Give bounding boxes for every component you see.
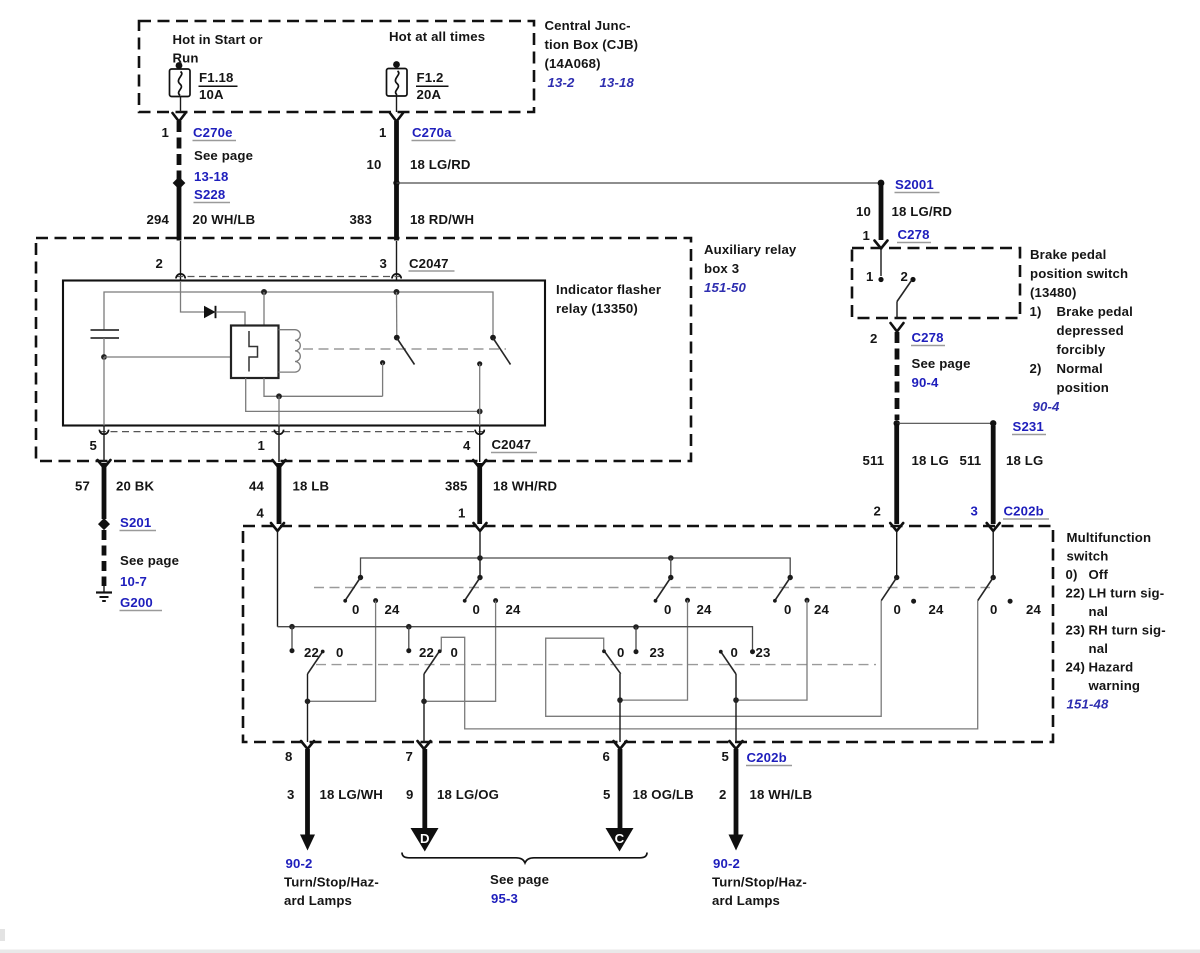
svg-text:18 LG: 18 LG — [912, 453, 949, 468]
svg-text:22): 22) — [1066, 586, 1086, 601]
svg-text:RH turn sig-: RH turn sig- — [1089, 623, 1166, 638]
svg-text:LH turn sig-: LH turn sig- — [1089, 586, 1165, 601]
node S2001 branch junction — [393, 180, 399, 186]
svg-text:ard Lamps: ard Lamps — [712, 893, 780, 908]
svg-text:3: 3 — [971, 504, 978, 519]
svg-text:C: C — [615, 831, 625, 846]
turn switch 4 contact 23 — [750, 649, 755, 654]
svg-text:forcibly: forcibly — [1057, 342, 1106, 357]
wire capacitor to ground node — [103, 338, 105, 357]
svg-text:24: 24 — [506, 602, 521, 617]
svg-text:9: 9 — [406, 787, 413, 802]
chevron pin5 out of aux box — [98, 460, 111, 468]
wire pin4 to aux border — [479, 426, 481, 462]
hazard switch 3 arm — [656, 578, 671, 601]
svg-text:Run: Run — [173, 51, 199, 66]
wire contact2 stationary to pin 4 — [479, 364, 481, 426]
svg-text:511: 511 — [960, 453, 982, 468]
flasher control block — [231, 326, 279, 379]
chevron pin 1 into MF switch — [474, 523, 487, 531]
svg-text:13-18: 13-18 — [600, 75, 635, 90]
wire rail to flasher block — [263, 292, 265, 326]
wire sw3 24 contact down-left to pin 6 node — [620, 600, 688, 700]
svg-text:18 OG/LB: 18 OG/LB — [633, 787, 694, 802]
svg-text:C278: C278 — [898, 227, 930, 242]
turn switch 2 contact 22 — [406, 648, 411, 653]
svg-text:warning: warning — [1088, 678, 1141, 693]
svg-text:18 LG: 18 LG — [1006, 453, 1043, 468]
svg-text:0: 0 — [731, 645, 738, 660]
pass-through arc pin 2 — [176, 274, 185, 279]
wire pin5 to aux border — [103, 426, 105, 462]
arrow to turn/stop lamps left — [300, 835, 315, 851]
svg-text:F1.2: F1.2 — [417, 70, 444, 85]
svg-text:3: 3 — [287, 787, 294, 802]
svg-text:0: 0 — [336, 645, 343, 660]
svg-text:position: position — [1057, 380, 1109, 395]
turn feed rail — [278, 627, 753, 652]
svg-text:ard Lamps: ard Lamps — [284, 893, 352, 908]
svg-text:S231: S231 — [1013, 419, 1044, 434]
svg-text:Normal: Normal — [1057, 361, 1103, 376]
hazard switch 2 contact 24 — [493, 598, 498, 603]
chevron out of CJB left — [173, 113, 186, 122]
svg-text:See page: See page — [490, 872, 549, 887]
svg-text:24: 24 — [929, 602, 944, 617]
chevron out of CJB right — [390, 113, 403, 122]
wire stub sw3L contact 23 — [635, 627, 637, 652]
chevron pin 5 out — [730, 741, 743, 749]
svg-text:22: 22 — [304, 645, 319, 660]
wire to S2001 — [397, 182, 882, 184]
svg-text:0: 0 — [990, 602, 997, 617]
svg-text:13-2: 13-2 — [548, 75, 576, 90]
svg-text:10: 10 — [856, 204, 871, 219]
flasher contact glyph — [249, 331, 258, 372]
relay contact 1 pivot — [394, 335, 400, 341]
wire 511 18 LG left — [894, 423, 899, 524]
svg-text:57: 57 — [75, 479, 90, 494]
svg-text:C202b: C202b — [747, 750, 787, 765]
relay contact 2 stationary — [477, 361, 482, 366]
chevron pin 4 into MF switch — [271, 523, 284, 531]
svg-text:2: 2 — [719, 787, 726, 802]
svg-text:1: 1 — [458, 506, 465, 521]
node pin 6 — [617, 697, 623, 703]
svg-text:C278: C278 — [912, 330, 944, 345]
chevron pin 8 out — [301, 741, 314, 749]
splice S2001 — [878, 180, 885, 187]
node pin 1 junction — [276, 393, 282, 399]
wire 10 18 LG/RD — [394, 121, 399, 241]
wire sw1 24 contact down-left to pin 8 node — [308, 601, 376, 702]
chevron pin4 out of aux box — [473, 460, 486, 468]
svg-text:tion Box (CJB): tion Box (CJB) — [545, 37, 639, 52]
svg-text:18 LG/WH: 18 LG/WH — [320, 787, 383, 802]
pass-through arc pin 1 — [274, 430, 283, 435]
svg-text:90-2: 90-2 — [286, 856, 313, 871]
svg-text:23): 23) — [1066, 623, 1086, 638]
svg-text:C2047: C2047 — [409, 256, 449, 271]
svg-text:1: 1 — [162, 125, 169, 140]
svg-text:Turn/Stop/Haz-: Turn/Stop/Haz- — [284, 875, 379, 890]
turn switch 1 contact 22 — [290, 648, 295, 653]
node rail pin1 — [477, 555, 483, 561]
turn switch 4 pivot to pin 5 — [735, 674, 737, 742]
svg-text:24): 24) — [1066, 660, 1086, 675]
turn switch 3 arm — [605, 652, 621, 674]
svg-text:Central Junc-: Central Junc- — [545, 18, 631, 33]
chevron into brake switch box — [875, 241, 888, 249]
svg-text:18 LG/RD: 18 LG/RD — [892, 204, 953, 219]
node cap/ground junction — [101, 354, 107, 360]
node rail sw2L — [406, 624, 412, 630]
internal supply rail — [104, 292, 493, 338]
svg-text:See page: See page — [120, 553, 179, 568]
svg-text:(14A068): (14A068) — [545, 56, 601, 71]
pass-through arc pin 5 — [99, 430, 108, 435]
ground G200 — [103, 586, 105, 592]
wire pin2 to diode — [181, 281, 205, 312]
svg-text:10A: 10A — [199, 87, 224, 102]
turn switch 2 pivot to pin 7 — [423, 674, 425, 742]
svg-text:18 LG/OG: 18 LG/OG — [437, 787, 499, 802]
relay contact 1 arm — [397, 338, 415, 365]
hazard switch 5 pivot — [894, 575, 899, 580]
svg-text:0: 0 — [784, 602, 791, 617]
wire pin 1 into box — [479, 531, 481, 578]
hazard switch 2 arm — [465, 578, 480, 601]
svg-text:24: 24 — [1026, 602, 1041, 617]
svg-text:Brake pedal: Brake pedal — [1057, 304, 1133, 319]
mechanical link dashed — [303, 348, 506, 350]
node S231 left — [894, 420, 900, 426]
wire arm to box bottom — [896, 302, 898, 319]
svg-text:switch: switch — [1067, 549, 1109, 564]
svg-text:3: 3 — [380, 256, 387, 271]
svg-text:Auxiliary relay: Auxiliary relay — [704, 242, 797, 257]
connector arrow D — [411, 828, 439, 852]
relay contact 1 stationary — [380, 360, 385, 365]
wire rail to sw3 pivot — [670, 558, 672, 578]
arrow to turn/stop lamps right — [729, 835, 744, 851]
svg-text:18 LG/RD: 18 LG/RD — [410, 157, 471, 172]
chevron pin 3 into MF switch — [987, 523, 1000, 531]
svg-text:18 LB: 18 LB — [293, 479, 330, 494]
wire stub sw2L contact 22 — [408, 627, 410, 651]
svg-text:20 BK: 20 BK — [116, 479, 154, 494]
wire pin 3 into box — [992, 531, 994, 578]
indicator flasher relay box — [63, 281, 545, 426]
svg-text:S201: S201 — [120, 515, 151, 530]
svg-text:2: 2 — [874, 504, 881, 519]
node pin 8 — [305, 699, 311, 705]
node rail sw1L — [289, 624, 295, 630]
chevron pin 7 out — [418, 741, 431, 749]
multifunction switch dashed border — [243, 526, 1053, 742]
wire pin 4 into box — [277, 531, 279, 627]
turn switch 4 arm — [721, 652, 736, 674]
svg-text:C2047: C2047 — [492, 437, 532, 452]
svg-text:Hazard: Hazard — [1089, 660, 1134, 675]
node rail sw3 stub — [668, 555, 674, 561]
svg-text:24: 24 — [814, 602, 829, 617]
capacitor C — [91, 329, 120, 331]
wire stub sw1L contact 22 — [291, 627, 293, 651]
wire S231 bridge — [897, 422, 994, 424]
wire sw4 24 contact down-left to pin 5 node — [736, 600, 807, 700]
svg-text:S228: S228 — [194, 187, 225, 202]
svg-text:385: 385 — [445, 479, 467, 494]
hazard switch 1 arm — [345, 578, 360, 601]
hazard switch 6 contact 24 — [1008, 599, 1013, 604]
wire contact1 feed — [396, 292, 398, 338]
wire node to relay block — [104, 356, 231, 358]
node pin 5 — [733, 697, 739, 703]
svg-text:nal: nal — [1089, 641, 1109, 656]
hazard switch 4 arm — [775, 578, 790, 601]
chevron pin 2 into MF switch — [890, 523, 903, 531]
svg-text:Hot in Start or: Hot in Start or — [173, 32, 263, 47]
svg-text:1): 1) — [1030, 304, 1042, 319]
hazard feed rail — [361, 558, 791, 578]
wire 57 20 BK — [102, 463, 107, 519]
svg-text:20A: 20A — [417, 87, 442, 102]
wire 511 18 LG right — [991, 426, 996, 524]
wire 294 dashed segment (in-line splice region) — [177, 121, 182, 182]
svg-text:Hot at all times: Hot at all times — [389, 29, 485, 44]
node rail sw3L — [633, 624, 639, 630]
svg-text:0): 0) — [1066, 567, 1078, 582]
connector dashed line bottom of relay — [99, 431, 485, 433]
wire diode to relay block — [216, 312, 246, 326]
svg-text:relay (13350): relay (13350) — [556, 301, 638, 316]
wire 294 20 WH/LB — [177, 186, 182, 241]
svg-text:18 RD/WH: 18 RD/WH — [410, 212, 474, 227]
wire 10 18 LG/RD right — [879, 183, 884, 240]
svg-text:13-18: 13-18 — [194, 169, 228, 184]
svg-text:0: 0 — [664, 602, 671, 617]
svg-text:0: 0 — [894, 602, 901, 617]
connector dashed line top of relay — [176, 276, 401, 278]
svg-text:151-50: 151-50 — [704, 280, 746, 295]
svg-text:Off: Off — [1089, 567, 1109, 582]
hazard switch 6 pivot — [991, 575, 996, 580]
svg-text:23: 23 — [756, 645, 771, 660]
turn switch 3 contact 23 — [634, 649, 639, 654]
svg-text:22: 22 — [419, 645, 434, 660]
wire 385 18 WH/RD — [477, 463, 482, 524]
svg-text:18 WH/LB: 18 WH/LB — [750, 787, 813, 802]
node pin 4 junction — [477, 409, 483, 415]
wire sw5 arm tip to RH off loop — [546, 601, 882, 716]
wire node down to pin 5 — [103, 357, 105, 426]
chevron pin 6 out — [614, 741, 627, 749]
svg-text:2: 2 — [156, 256, 163, 271]
svg-text:0: 0 — [473, 602, 480, 617]
svg-text:44: 44 — [249, 479, 264, 494]
svg-text:5: 5 — [90, 438, 97, 453]
svg-text:6: 6 — [603, 749, 610, 764]
svg-text:294: 294 — [147, 212, 170, 227]
svg-text:C202b: C202b — [1004, 504, 1044, 519]
svg-text:383: 383 — [350, 212, 372, 227]
relay coil — [279, 330, 301, 372]
svg-text:24: 24 — [385, 602, 400, 617]
wire 3 18 LG/WH — [305, 749, 310, 836]
splice S228 — [173, 177, 186, 190]
brake pedal position switch dashed border — [852, 248, 1020, 318]
svg-text:23: 23 — [650, 645, 665, 660]
node S231 right — [990, 420, 996, 426]
svg-text:0: 0 — [451, 645, 458, 660]
hazard switch 6 arm — [978, 578, 994, 601]
turn switch 1 arm — [308, 652, 323, 674]
wire 9 18 LG/OG — [422, 749, 427, 829]
node dot above fuse F1.18 — [176, 62, 183, 69]
svg-text:5: 5 — [722, 749, 729, 764]
wire pin 2 into box — [896, 531, 898, 578]
svg-text:See page: See page — [194, 148, 253, 163]
svg-text:depressed: depressed — [1057, 323, 1124, 338]
svg-text:151-48: 151-48 — [1067, 697, 1109, 712]
wire block bottom to pin4 net — [246, 378, 480, 411]
hazard switch 1 contact 24 — [373, 598, 378, 603]
svg-text:Multifunction: Multifunction — [1067, 530, 1152, 545]
wire pin 1 drop — [278, 396, 280, 425]
splice S201 — [98, 518, 110, 530]
svg-text:90-4: 90-4 — [1033, 399, 1061, 414]
hazard switch 4 contact 24 — [805, 598, 810, 603]
svg-text:Brake pedal: Brake pedal — [1030, 247, 1106, 262]
svg-text:4: 4 — [257, 506, 265, 521]
svg-text:2): 2) — [1030, 361, 1042, 376]
wire pin1 to aux border — [278, 426, 280, 462]
svg-text:box 3: box 3 — [704, 261, 739, 276]
svg-text:S2001: S2001 — [895, 177, 934, 192]
svg-text:24: 24 — [697, 602, 712, 617]
wire contact1 stationary down — [382, 363, 384, 397]
svg-text:1: 1 — [258, 438, 265, 453]
turn switch 1 pivot to pin 8 — [307, 674, 309, 742]
svg-text:position switch: position switch — [1030, 266, 1128, 281]
wire dashed to ground — [102, 530, 107, 586]
svg-text:90-2: 90-2 — [713, 856, 740, 871]
wire pin1 inside box — [880, 249, 882, 276]
svg-text:20 WH/LB: 20 WH/LB — [193, 212, 256, 227]
wire sw2 24 contact down-left to pin 7 node — [424, 601, 496, 702]
brake switch contact 2 — [910, 277, 915, 282]
edge artifact mark — [0, 929, 5, 941]
svg-text:See page: See page — [912, 356, 971, 371]
central junction box (CJB) dashed border — [139, 21, 534, 112]
svg-text:7: 7 — [406, 749, 413, 764]
hazard switch 4 pivot — [788, 575, 793, 580]
pass-through arc pin 4 — [475, 430, 484, 435]
turn switch 3 pivot to pin 6 — [619, 674, 621, 742]
svg-text:10: 10 — [367, 157, 382, 172]
hazard switch 5 contact 24 — [911, 599, 916, 604]
svg-text:18 WH/RD: 18 WH/RD — [493, 479, 557, 494]
svg-text:nal: nal — [1089, 604, 1109, 619]
svg-text:90-4: 90-4 — [912, 375, 940, 390]
svg-text:D: D — [420, 831, 430, 846]
svg-text:5: 5 — [603, 787, 610, 802]
hazard switch 3 pivot — [668, 575, 673, 580]
svg-text:C270a: C270a — [412, 125, 452, 140]
wire block bottom to pin1 net — [264, 378, 383, 396]
chevron pin1 out of aux box — [273, 460, 286, 468]
wire 44 18 LB — [277, 463, 282, 524]
wire into aux box to relay pin 3 — [396, 241, 398, 281]
auxiliary relay box 3 dashed border — [36, 238, 691, 461]
svg-text:8: 8 — [285, 749, 292, 764]
svg-text:0: 0 — [617, 645, 624, 660]
hazard switch 3 contact 24 — [685, 598, 690, 603]
svg-text:G200: G200 — [120, 595, 153, 610]
turn mechanical link dashed — [316, 664, 876, 666]
node dot above fuse F1.2 — [393, 61, 400, 68]
svg-text:(13480): (13480) — [1030, 285, 1077, 300]
svg-text:511: 511 — [863, 453, 885, 468]
node pin 7 — [421, 699, 427, 705]
hazard mechanical link dashed — [314, 587, 990, 589]
svg-text:95-3: 95-3 — [491, 891, 518, 906]
turn switch 2 arm — [424, 652, 439, 674]
svg-text:F1.18: F1.18 — [199, 70, 233, 85]
hazard switch 5 arm — [881, 578, 897, 601]
wire fuse F1.2 to CJB border — [396, 96, 398, 112]
bottom gray strip — [0, 950, 1200, 953]
pass-through arc pin 3 — [392, 274, 401, 279]
node rail to flasher block — [261, 289, 267, 295]
svg-text:10-7: 10-7 — [120, 574, 147, 589]
wire 511 dashed segment — [895, 332, 900, 420]
connector arrow C — [606, 828, 634, 852]
hazard switch 2 pivot — [477, 575, 482, 580]
svg-text:4: 4 — [463, 438, 471, 453]
svg-text:2: 2 — [901, 269, 908, 284]
svg-text:Indicator flasher: Indicator flasher — [556, 282, 661, 297]
hazard switch 1 pivot — [358, 575, 363, 580]
relay contact 2 arm — [493, 338, 511, 365]
relay contact 2 pivot — [490, 335, 496, 341]
svg-text:C270e: C270e — [193, 125, 233, 140]
chevron out of brake switch box — [891, 323, 904, 332]
svg-text:Turn/Stop/Haz-: Turn/Stop/Haz- — [712, 875, 807, 890]
svg-text:1: 1 — [863, 228, 870, 243]
diode CR1 — [204, 306, 216, 318]
svg-text:0: 0 — [352, 602, 359, 617]
svg-text:1: 1 — [379, 125, 386, 140]
wire into aux box to relay pin 2 — [180, 241, 182, 281]
svg-text:1: 1 — [866, 269, 873, 284]
node rail to contact 1 — [394, 289, 400, 295]
svg-text:2: 2 — [870, 331, 877, 346]
wire sw6 arm tip to LH off loop — [441, 601, 977, 729]
fuse F1.2 — [387, 69, 408, 97]
brace see page 95-3 — [402, 853, 647, 863]
brake switch contact 1 — [878, 277, 883, 282]
wire fuse F1.18 to CJB border — [180, 97, 182, 113]
wire 5 18 OG/LB — [618, 749, 623, 829]
fuse F1.18 — [170, 69, 191, 97]
brake switch arm — [897, 281, 912, 302]
wire 2 18 WH/LB — [734, 749, 739, 836]
